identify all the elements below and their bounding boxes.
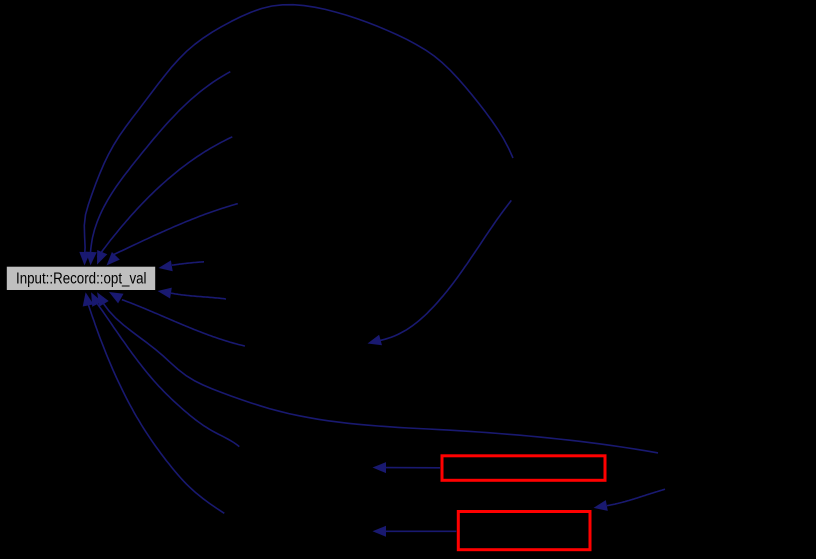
svg-text:Input::Record::opt_val: Input::Record::opt_val bbox=[16, 271, 147, 288]
